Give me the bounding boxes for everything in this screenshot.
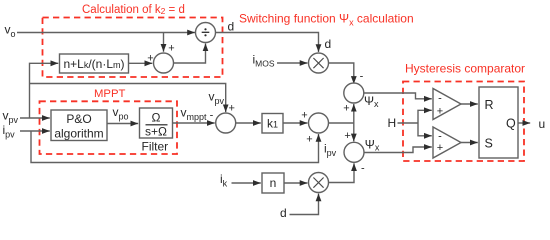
wire M2 to summer S5 bottom [329,163,355,182]
svg-text:ipv: ipv [324,142,337,159]
svg-text:+: + [306,134,312,146]
block filter Omega/(s+Omega) [140,108,173,139]
title: Calculation of k2 = d [82,4,185,16]
svg-text:Switching function Ψx calculat: Switching function Ψx calculation [239,12,414,28]
sign + (left input of S4) [301,110,307,122]
wire filter to summer S2 [173,122,215,124]
svg-text:Filter: Filter [142,140,169,154]
label d (bottom) [280,206,287,220]
svg-text:+: + [344,130,350,142]
svg-text:-: - [210,110,214,122]
svg-text:u: u [539,117,546,131]
dashed box: Hysteresis comparator [403,82,524,162]
wire i_pv bottom run to S4 [31,131,319,163]
sign + (bottom input of S3) [343,103,349,115]
wire k1 to summer S4 [283,122,308,124]
wire i_pv input to P&O [20,130,50,132]
svg-text:Ψx: Ψx [365,138,380,153]
sign - (top input of S3) [360,71,364,83]
multiplier M1 [309,53,329,73]
title: MPPT [94,88,125,100]
wire S3 to comparator C1 [364,93,432,99]
wire down to summer S5 [353,123,355,141]
wire v_pv vertical feed to block [30,63,59,118]
sign + (top input of S2) [228,103,234,115]
title: Hysteresis comparator [405,62,525,76]
label v_po [113,105,129,122]
svg-text:+: + [147,53,153,65]
label d (above M1) [325,37,332,51]
svg-text:n: n [270,176,277,190]
sign - (bottom input of S5) [361,163,365,175]
wire v_pv input to P&O [20,117,50,119]
svg-text:R: R [485,98,494,112]
svg-text:d: d [280,206,287,220]
label v_o [5,23,16,40]
svg-text:algorithm: algorithm [54,127,103,141]
svg-text:Hysteresis comparator: Hysteresis comparator [405,62,525,76]
svg-text:ipv: ipv [3,123,16,140]
sign + (bottom input of S4) [306,134,312,146]
svg-text:vpv: vpv [209,90,225,107]
title: Switching function Psi_x calculation [239,12,414,28]
sign - (left input of S2) [210,110,214,122]
comparator C1 [433,89,461,120]
svg-text:S: S [485,136,493,150]
svg-text:vpo: vpo [113,105,129,122]
dashed box: Calculation of k2 = d [43,18,223,78]
wire P&O to filter [107,123,138,125]
wire i_MOS to M1 [277,62,308,64]
svg-text:Calculation of k2 = d: Calculation of k2 = d [82,4,185,16]
svg-text:Ω: Ω [152,111,161,125]
svg-text:MPPT: MPPT [94,88,125,100]
label i_pv (left input) [3,123,16,140]
label v_pv (left input) [3,109,19,126]
wire v_o to divider [17,32,195,34]
sign + (top input of S5) [344,130,350,142]
svg-text:+: + [168,43,174,55]
svg-text:H: H [388,116,397,130]
dashed box: MPPT [40,101,178,154]
block n [262,173,284,193]
svg-text:+: + [437,142,443,154]
wire block to summer S1 [129,62,153,64]
wire n to multiplier M2 [284,182,308,184]
wire v_pv branch right to summer S2 [30,84,226,113]
svg-text:d: d [228,20,235,34]
svg-text:+: + [301,110,307,122]
label H [388,116,397,130]
wire d to multiplier M1 [215,33,318,53]
wire H split to comparators [398,110,432,123]
label Psi_x (lower) [365,138,380,153]
wire S4 to Psi verticals [329,104,354,123]
block P&O algorithm [51,110,107,141]
summer S5 [344,142,364,162]
wire Q output [518,122,530,124]
label Filter [142,140,169,154]
label i_pv (at S4) [324,142,337,159]
svg-text:-: - [360,71,364,83]
svg-text:d: d [325,37,332,51]
svg-text:iMOS: iMOS [253,53,275,69]
label i_k [220,172,228,189]
wire H lower branch [418,123,432,136]
svg-text:-: - [361,163,365,175]
comparator C2 [433,127,461,158]
svg-text:s+Ω: s+Ω [145,125,167,139]
wire S2 to k1 [236,122,261,124]
sign + (left input of S1) [147,53,153,65]
svg-text:-: - [438,131,442,143]
summer S3 [344,83,364,103]
wire S1 to divider bottom [174,43,206,63]
wire M1 to summer S3 top [329,63,354,84]
summer S1 [154,53,174,73]
svg-text:Q: Q [506,117,516,131]
label v_pv (above S2) [209,90,225,107]
svg-text:k1: k1 [267,117,278,131]
block RS flip-flop [479,87,518,158]
wire i_k to block n [232,182,261,184]
svg-text:n+Lk/(n·Lm): n+Lk/(n·Lm) [63,57,124,71]
wire d to M2 [290,194,319,215]
block k1 [262,114,283,134]
label Psi_x (upper) [364,94,379,109]
wire C1 to R input [461,103,478,105]
label d (after divider) [228,20,235,34]
svg-text:ik: ik [220,172,228,189]
svg-text:+: + [343,103,349,115]
multiplier M2 [309,173,329,193]
svg-text:vo: vo [5,23,16,40]
label u [539,117,546,131]
block n+Lk/(n·Lm) [60,54,129,73]
svg-text:+: + [437,106,443,118]
svg-text:P&O: P&O [66,112,91,126]
svg-text:vmppt: vmppt [181,106,208,123]
divider circle [196,23,216,43]
svg-text:+: + [228,103,234,115]
wire branch v_o down to summer S1 [163,33,165,52]
label i_MOS [253,53,275,69]
wire C2 to S input [461,142,478,144]
summer S2 [216,113,236,133]
wire S5 to comparator C2 [364,147,432,153]
summer S4 [309,113,329,133]
svg-text:-: - [438,93,442,105]
sign + (top input of S1) [168,43,174,55]
svg-text:Ψx: Ψx [364,94,379,109]
label v_mppt [181,106,208,123]
